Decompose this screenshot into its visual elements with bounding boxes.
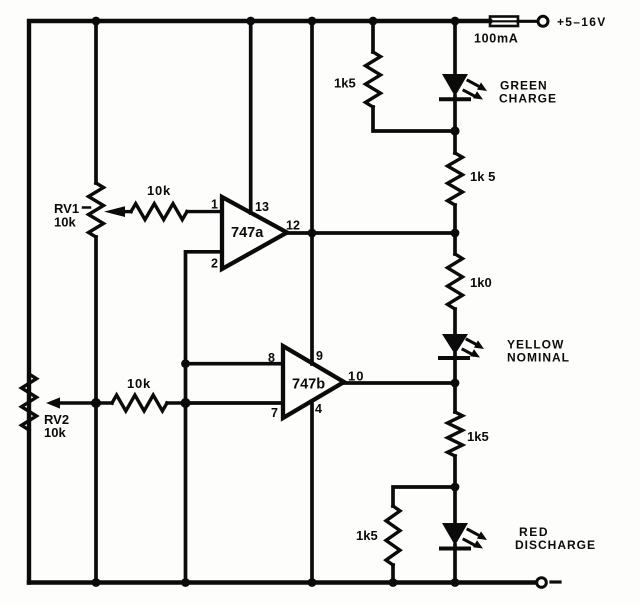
wire R3 to node B (453, 205, 457, 254)
wire R7 to bus (167, 401, 186, 404)
node bottom rail R6 (389, 578, 398, 587)
op-amp U1b 747b (283, 346, 344, 418)
svg-text:RED: RED (519, 525, 549, 539)
pin 7 wire (186, 401, 284, 405)
wire top supply rail (29, 21, 490, 583)
pin 12 output wire (287, 231, 455, 235)
wire R5 to node C (453, 456, 457, 525)
wire bottom rail (29, 580, 534, 584)
resistor R5 1k5 (mid) (448, 412, 463, 456)
LED D1 green (441, 74, 469, 131)
potentiometer RV2 10k (22, 374, 37, 430)
pin 8 wire (186, 362, 284, 366)
wire R1 to pin1 (187, 210, 222, 213)
svg-text:1k0: 1k0 (470, 275, 492, 290)
node top rail pin13 (246, 17, 255, 26)
node top rail supply mid (308, 17, 317, 26)
svg-text:10k: 10k (54, 215, 76, 230)
LED D2 yellow (440, 334, 468, 412)
svg-text:DISCHARGE: DISCHARGE (515, 538, 596, 552)
wire RV2 wiper to R7 (96, 401, 112, 404)
svg-text:7: 7 (271, 406, 278, 420)
node RV2 wiper rail (91, 398, 101, 408)
node bus pin7 (181, 398, 191, 408)
svg-text:8: 8 (268, 351, 275, 365)
svg-text:10k: 10k (127, 376, 151, 391)
wire node A to R3 (453, 131, 457, 153)
svg-text:10k: 10k (44, 425, 66, 440)
LED D1 arrows (464, 81, 487, 100)
op-amp U1a 747a (222, 197, 287, 269)
RV1 wiper arrow (104, 206, 131, 217)
wire pin4 down (310, 401, 314, 583)
wire supply mid x=312 (310, 21, 314, 364)
pin 10 output wire (344, 381, 455, 385)
label minus (551, 580, 560, 583)
svg-text:YELLOW: YELLOW (507, 338, 564, 352)
node top rail LED column (451, 17, 460, 26)
node supply crossing (308, 229, 317, 238)
wire R4 to LED D2 (453, 309, 457, 336)
LED D3 red (441, 523, 469, 583)
svg-text:12: 12 (286, 219, 300, 233)
node top rail shunt (369, 17, 378, 26)
wire shunt to node A (373, 107, 455, 131)
pin 2 wire (186, 252, 223, 583)
terminal +V (538, 16, 548, 26)
svg-text:10: 10 (348, 369, 364, 384)
resistor R3 1k5 (448, 153, 463, 205)
wire RV1 rail x=96 (94, 21, 98, 183)
svg-text:747b: 747b (292, 377, 325, 393)
svg-text:10k: 10k (147, 183, 171, 198)
svg-text:4: 4 (315, 402, 322, 416)
svg-text:1k 5: 1k 5 (470, 169, 495, 184)
wire LED column top (453, 21, 457, 76)
resistor R2 1k5 (top shunt) (366, 52, 381, 107)
node bottom rail pin4 (308, 578, 317, 587)
resistor R4 1k0 (448, 254, 463, 309)
svg-text:13: 13 (255, 200, 269, 214)
LED D3 arrows (464, 530, 487, 549)
node bottom rail bus (181, 578, 190, 587)
node 747b output (451, 379, 460, 388)
svg-text:9: 9 (316, 349, 323, 363)
svg-text:1: 1 (211, 198, 218, 212)
svg-text:NOMINAL: NOMINAL (507, 351, 570, 365)
resistor R1 10k (top) (131, 204, 187, 220)
node B 747a output (451, 229, 460, 238)
node bus pin8 (181, 359, 190, 368)
node top rail RV1 (92, 17, 101, 26)
svg-text:GREEN: GREEN (500, 79, 548, 93)
resistor R7 10k (bottom) (112, 395, 167, 411)
svg-text:CHARGE: CHARGE (499, 92, 557, 106)
svg-text:+5–16V: +5–16V (557, 15, 607, 29)
resistor R6 1k5 (bottom left) (386, 506, 400, 565)
terminal -V (537, 578, 547, 588)
svg-text:1k5: 1k5 (334, 76, 356, 91)
LED D2 arrows (463, 340, 484, 358)
node bottom rail RV1 (92, 578, 101, 587)
svg-text:2: 2 (211, 257, 218, 271)
wire node C branch (393, 487, 455, 506)
node A green cathode (450, 126, 459, 135)
wire R6 to rail (391, 565, 395, 583)
RV2 wiper arrow (46, 397, 96, 408)
svg-text:100mA: 100mA (474, 32, 519, 46)
node C red branch (451, 483, 460, 492)
svg-text:1k5: 1k5 (356, 528, 378, 543)
node bottom rail LED column (451, 578, 460, 587)
potentiometer RV1 10k (89, 183, 104, 237)
fuse FS1 100mA (490, 17, 536, 27)
pin 13 wire (249, 21, 253, 213)
wire shunt column x=373 (371, 21, 375, 52)
svg-text:747a: 747a (231, 225, 264, 241)
svg-text:1k5: 1k5 (467, 429, 489, 444)
